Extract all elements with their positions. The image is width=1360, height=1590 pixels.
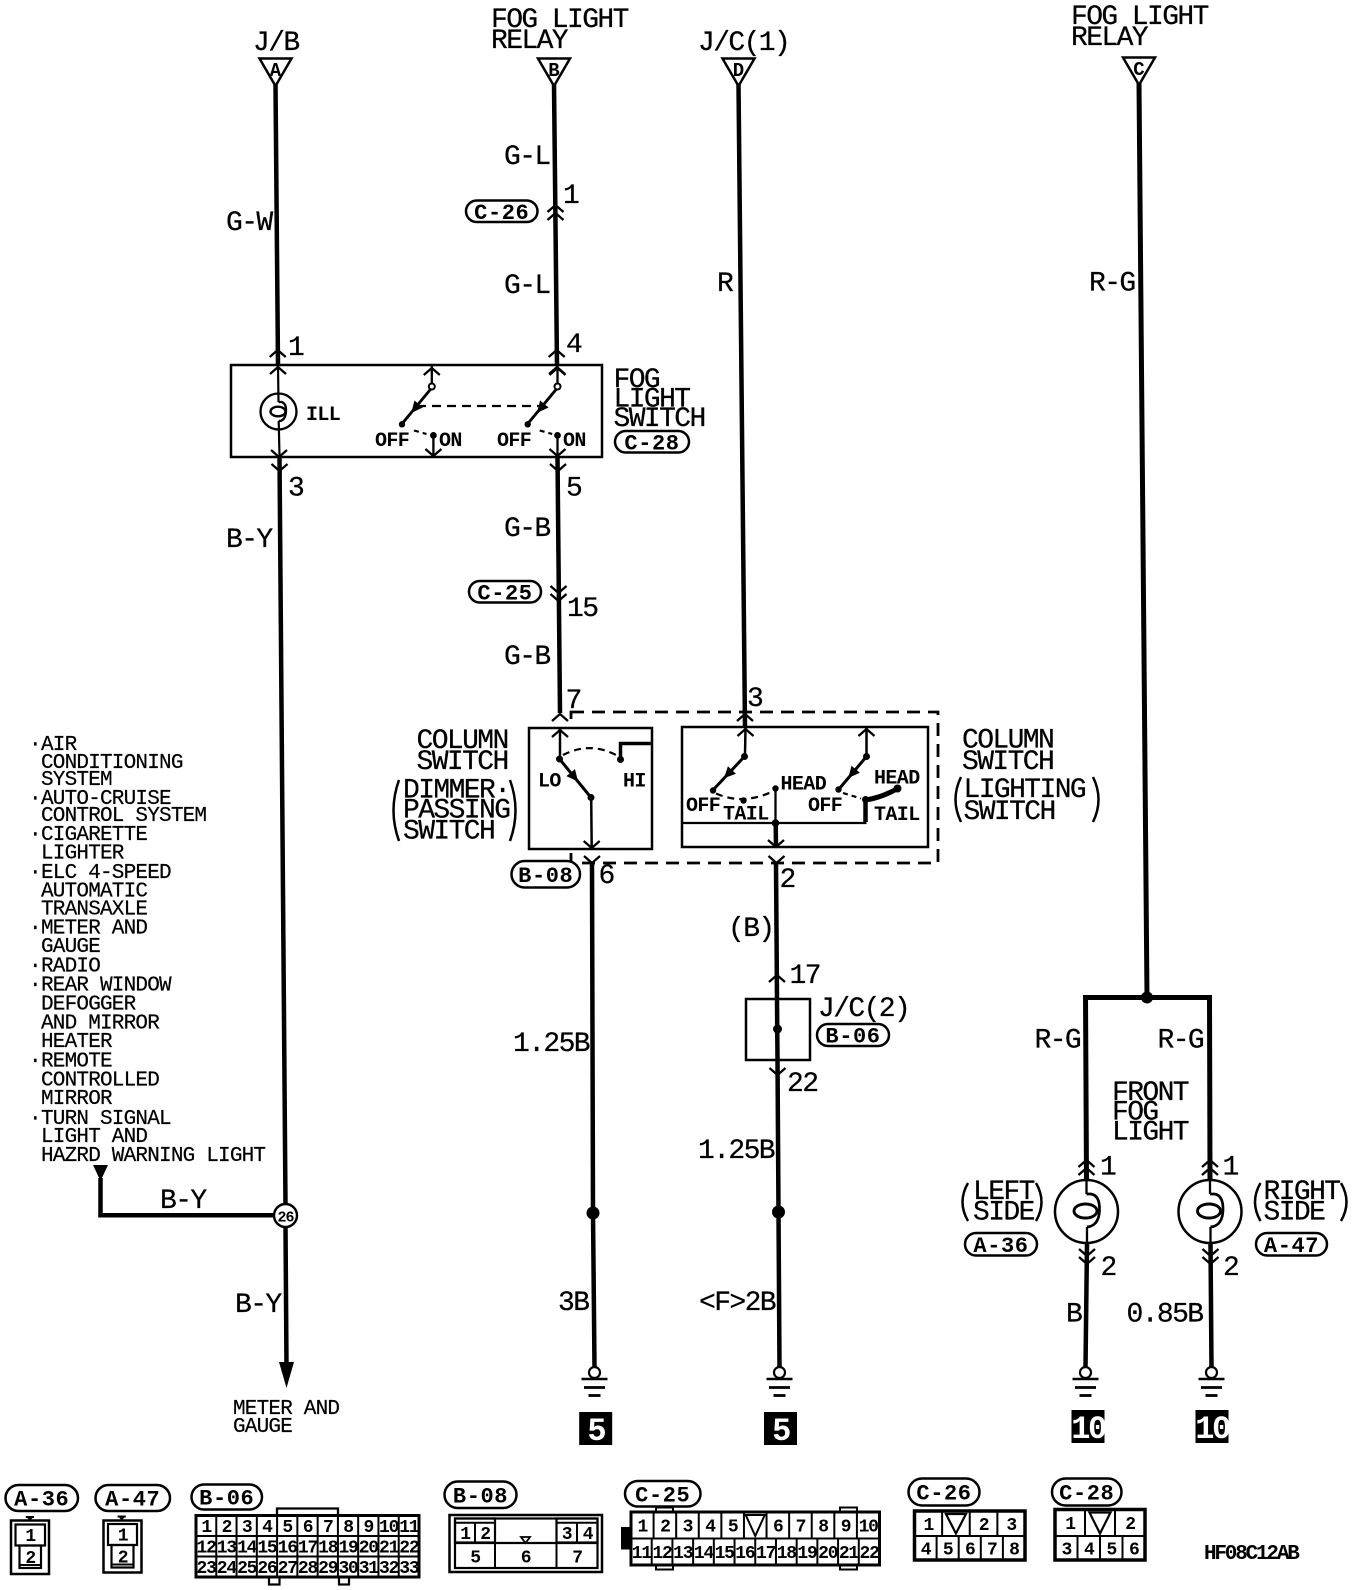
svg-text:·: ·	[29, 788, 41, 811]
svg-text:20: 20	[359, 1538, 379, 1558]
svg-text:5: 5	[470, 1549, 480, 1569]
ground for left fog light	[1073, 1367, 1099, 1396]
pin 6 label	[599, 861, 614, 892]
svg-text:G-L: G-L	[504, 142, 550, 173]
left fog light pin 2	[1079, 1249, 1116, 1284]
splice dot on wire 6	[587, 1207, 600, 1220]
connector C-25 pin view	[621, 1481, 880, 1570]
svg-text:29: 29	[318, 1559, 338, 1579]
left fog light ground wire B	[1086, 1244, 1088, 1368]
lighting switch right pivot entry	[859, 728, 875, 760]
svg-text:18: 18	[777, 1544, 797, 1564]
svg-text:B-Y: B-Y	[160, 1186, 207, 1217]
left fog light pin 1	[1079, 1153, 1117, 1184]
svg-text:2: 2	[979, 1516, 989, 1536]
svg-text:6: 6	[773, 1518, 783, 1538]
svg-text:14: 14	[694, 1544, 715, 1564]
svg-text:5: 5	[943, 1540, 953, 1560]
svg-text:SIDE: SIDE	[973, 1198, 1035, 1229]
svg-text:B-08: B-08	[518, 864, 573, 889]
ground for right fog light	[1199, 1367, 1225, 1396]
pin 1 label at C-26	[563, 181, 579, 212]
node FOG LIGHT RELAY label (B)	[491, 5, 629, 57]
svg-text:13: 13	[217, 1538, 237, 1558]
svg-text:2: 2	[1101, 1253, 1116, 1284]
FOG LIGHT SWITCH label	[614, 365, 705, 435]
svg-text:3: 3	[288, 474, 304, 505]
svg-text:1: 1	[563, 181, 579, 212]
svg-text:5: 5	[772, 1413, 790, 1450]
wire R from J/C(1) to lighting switch pin 3	[739, 84, 746, 728]
svg-text:HI: HI	[623, 771, 646, 794]
svg-text:2: 2	[660, 1518, 670, 1538]
COLUMN SWITCH LIGHTING label	[956, 726, 1099, 829]
wire label F 2B	[699, 1288, 776, 1319]
connector triangle B (fog light relay)	[538, 59, 570, 87]
svg-text:6: 6	[599, 861, 614, 892]
connector B-06 pin view	[192, 1485, 420, 1585]
connector A-47 label	[1256, 1233, 1327, 1259]
wire label 1.25B right	[698, 1136, 775, 1167]
svg-text:19: 19	[338, 1538, 358, 1558]
connector A-36 pin view	[6, 1485, 79, 1574]
svg-text:10: 10	[379, 1518, 399, 1538]
wire label R-G left	[1035, 1026, 1081, 1057]
svg-text:4: 4	[921, 1540, 932, 1560]
right fog light pin 2	[1203, 1249, 1239, 1284]
svg-text:1: 1	[288, 333, 304, 364]
connector C-26 pin view	[909, 1479, 1026, 1561]
wire B-Y from switch pin 3 to junction 26	[280, 457, 286, 1205]
branch arrow from systems list	[93, 1165, 108, 1213]
pin 5 of fog light switch	[550, 464, 582, 505]
TAIL contact left mech	[723, 797, 769, 826]
J/C(2) label	[818, 994, 909, 1025]
svg-text:17: 17	[756, 1544, 776, 1564]
connector triangle D (J/C(1))	[723, 59, 755, 87]
svg-text:24: 24	[217, 1559, 238, 1579]
svg-text:·: ·	[29, 824, 41, 847]
svg-text:6: 6	[303, 1518, 313, 1538]
svg-text:15: 15	[715, 1544, 735, 1564]
OFF label left mech	[686, 795, 720, 818]
svg-text:A-47: A-47	[1264, 1234, 1319, 1259]
connector triangle A (J/B)	[260, 59, 292, 87]
METER AND GAUGE destination label	[233, 1398, 339, 1439]
svg-text:1: 1	[25, 1527, 36, 1547]
svg-text:·: ·	[29, 975, 41, 998]
svg-text:31: 31	[359, 1559, 380, 1579]
svg-text:1: 1	[1100, 1153, 1116, 1184]
wire label (B)	[728, 914, 774, 945]
svg-text:8: 8	[343, 1518, 353, 1538]
wire label B-Y at branch	[160, 1186, 207, 1217]
svg-text:17: 17	[790, 961, 820, 992]
arrow to METER AND GAUGE	[279, 1362, 294, 1388]
pin 3 of fog light switch	[271, 450, 304, 505]
fog switch contact 2 (right, relay drive side)	[497, 366, 586, 456]
OFF label right mech	[808, 795, 842, 818]
svg-text:1: 1	[201, 1518, 212, 1538]
ground id 10 left	[1071, 1410, 1106, 1448]
junction 26 on B-Y wire	[274, 1204, 297, 1227]
svg-text:2: 2	[780, 865, 795, 896]
svg-text:16: 16	[735, 1544, 755, 1564]
wire 1.25B from dimmer pin 6 to ground	[592, 863, 595, 1367]
pin 3 label at lighting switch	[747, 684, 763, 715]
lighting switch internal bus	[683, 819, 867, 827]
svg-text:8: 8	[1009, 1540, 1019, 1560]
svg-text:4: 4	[566, 330, 582, 361]
wire 1.25B from J/C(2) to ground	[778, 1060, 780, 1367]
svg-text:B-Y: B-Y	[226, 525, 273, 556]
fog light switch box	[231, 365, 602, 457]
wire G-B from switch pin 5 to dimmer switch pin 7	[558, 457, 561, 713]
dimmer switch HI contact	[617, 744, 651, 794]
svg-text:·: ·	[29, 918, 41, 941]
svg-text:9: 9	[841, 1518, 851, 1538]
connector A-36 label	[965, 1233, 1037, 1259]
svg-text:HF08C12AB: HF08C12AB	[1204, 1543, 1300, 1566]
svg-text:SWITCH: SWITCH	[962, 747, 1053, 778]
svg-text:21: 21	[379, 1538, 400, 1558]
svg-text:2: 2	[1125, 1515, 1135, 1535]
svg-text:SIDE: SIDE	[1264, 1198, 1326, 1229]
lighting switch left lever	[710, 757, 745, 794]
svg-text:R-G: R-G	[1089, 269, 1135, 300]
svg-text:2: 2	[1223, 1253, 1238, 1284]
svg-text:16: 16	[278, 1538, 298, 1558]
svg-text:J/C(2): J/C(2)	[818, 994, 909, 1025]
right fog light pin 1	[1202, 1153, 1239, 1184]
wire label R-G right	[1158, 1026, 1204, 1057]
connector C-25 inline marker	[469, 581, 541, 606]
wire G-W from J/B A to fog light switch pin 1	[276, 84, 279, 366]
svg-text:32: 32	[379, 1559, 399, 1579]
svg-text:5: 5	[282, 1518, 292, 1538]
dimmer passing switch box	[529, 728, 652, 849]
TAIL contact right mech (selected)	[862, 785, 902, 823]
svg-text:LIGHT: LIGHT	[1112, 1118, 1189, 1149]
wire label B	[1066, 1300, 1082, 1331]
svg-text:10: 10	[1071, 1411, 1106, 1448]
svg-text:G-B: G-B	[504, 642, 550, 673]
lighting switch right lever	[835, 757, 866, 793]
svg-text:B-08: B-08	[453, 1484, 508, 1509]
pin 4 of fog light switch	[549, 330, 582, 374]
chevrons at C-26 crossing	[548, 205, 564, 220]
svg-text:R-G: R-G	[1158, 1026, 1204, 1057]
wire G-L from relay B to fog light switch pin 4	[554, 84, 557, 366]
chevron and pin 17 at J/C(2)	[769, 961, 820, 992]
svg-text:B-06: B-06	[825, 1025, 880, 1050]
svg-text:26: 26	[277, 1210, 294, 1227]
svg-text:5: 5	[1106, 1540, 1116, 1560]
right fog light ground wire 0.85B	[1211, 1244, 1212, 1368]
left systems list	[29, 734, 265, 1168]
svg-text:B-Y: B-Y	[235, 1290, 282, 1321]
svg-text:19: 19	[797, 1544, 817, 1564]
svg-text:1: 1	[1065, 1515, 1076, 1535]
svg-text:7: 7	[796, 1518, 806, 1538]
svg-text:4: 4	[1084, 1540, 1095, 1560]
svg-text:C-28: C-28	[1059, 1482, 1114, 1507]
svg-text:1.25B: 1.25B	[513, 1029, 590, 1060]
svg-text:4: 4	[262, 1518, 273, 1538]
dimmer switch lever	[560, 759, 595, 801]
svg-text:HEAD: HEAD	[874, 768, 920, 791]
gang dashed link between fog switch contacts	[417, 405, 540, 407]
svg-text:28: 28	[298, 1559, 318, 1579]
COLUMN SWITCH DIMMER PASSING label	[394, 726, 516, 848]
svg-text:7: 7	[987, 1540, 997, 1560]
pin 7 label at dimmer switch	[566, 686, 581, 717]
svg-text:27: 27	[278, 1559, 298, 1579]
wire R-G from relay C down to fog light branch	[1139, 83, 1147, 998]
pin 1 of fog light switch	[270, 333, 304, 374]
ground id 5 left	[579, 1412, 612, 1450]
svg-text:ON: ON	[439, 430, 462, 453]
svg-text:B: B	[548, 60, 559, 82]
connector B-08 inline marker	[512, 861, 581, 889]
svg-text:5: 5	[566, 474, 582, 505]
svg-text:3: 3	[1006, 1516, 1016, 1536]
svg-text:OFF: OFF	[375, 430, 409, 453]
svg-text:C-25: C-25	[477, 581, 532, 606]
svg-text:18: 18	[318, 1538, 338, 1558]
splice dot on wire 22	[772, 1206, 785, 1219]
svg-text:(B): (B)	[728, 914, 774, 945]
svg-text:1.25B: 1.25B	[698, 1136, 775, 1167]
left fog light feed wire R-G	[1086, 995, 1087, 1181]
wire label G-B lower	[504, 642, 550, 673]
svg-text:0.85B: 0.85B	[1127, 1300, 1204, 1331]
branch wire to junction 26	[98, 1213, 276, 1218]
svg-text:12: 12	[652, 1544, 672, 1564]
lighting switch wire to pin 2	[768, 823, 785, 863]
svg-text:6: 6	[1129, 1540, 1139, 1560]
right fog light feed wire R-G	[1207, 995, 1213, 1181]
svg-text:15: 15	[257, 1538, 277, 1558]
svg-text:26: 26	[257, 1559, 277, 1579]
svg-text:3: 3	[242, 1518, 252, 1538]
wire label G-L upper	[504, 142, 550, 173]
svg-text:RELAY: RELAY	[491, 26, 569, 57]
ILL illumination bulb in switch	[261, 366, 297, 456]
node FOG LIGHT RELAY label (C)	[1071, 2, 1209, 54]
svg-text:5: 5	[728, 1518, 738, 1538]
ground for lighting circuit	[767, 1367, 793, 1396]
svg-text:B: B	[1066, 1300, 1082, 1331]
svg-text:7: 7	[323, 1518, 333, 1538]
svg-text:G-L: G-L	[504, 271, 550, 302]
svg-text:C-25: C-25	[635, 1483, 690, 1508]
wire B-Y from junction 26 to meter and gauge	[286, 1227, 287, 1366]
svg-text:·: ·	[29, 1051, 41, 1074]
wire label R	[717, 269, 734, 300]
svg-text:6: 6	[521, 1549, 531, 1569]
svg-text:4: 4	[705, 1518, 716, 1538]
fog light feed branch tee	[1086, 992, 1210, 1004]
svg-text:HAZRD WARNING LIGHT: HAZRD WARNING LIGHT	[41, 1145, 265, 1168]
svg-text:10: 10	[1195, 1411, 1230, 1448]
dimmer switch LO contact	[538, 756, 563, 794]
svg-text:17: 17	[298, 1538, 318, 1558]
svg-text:11: 11	[632, 1544, 653, 1564]
svg-text:2: 2	[222, 1518, 232, 1538]
svg-text:OFF: OFF	[686, 795, 720, 818]
wire label 0.85B	[1127, 1300, 1204, 1331]
lighting switch left dashed arc	[716, 792, 773, 800]
HEAD contact left mech	[772, 774, 826, 824]
lighting switch pin 3 entry chevrons	[737, 714, 754, 755]
svg-text:·: ·	[29, 862, 41, 885]
svg-text:G-W: G-W	[226, 208, 273, 239]
svg-text:A-36: A-36	[973, 1234, 1028, 1259]
dimmer switch pin 7 entry chevrons	[552, 714, 568, 756]
dimmer switch dashed arc	[563, 748, 617, 755]
svg-text:LO: LO	[538, 771, 561, 794]
svg-text:J/B: J/B	[253, 28, 299, 59]
svg-text:20: 20	[818, 1544, 838, 1564]
pin 2 label	[780, 865, 795, 896]
chevrons at C-25 crossing	[551, 586, 567, 601]
connector A-47 pin view	[96, 1485, 171, 1573]
left front fog light bulb	[1055, 1180, 1118, 1244]
svg-text:7: 7	[572, 1549, 582, 1569]
svg-text:·: ·	[29, 1108, 41, 1131]
node J/B (junction block) label	[253, 28, 299, 59]
svg-text:21: 21	[839, 1544, 860, 1564]
svg-text:A: A	[270, 60, 282, 82]
svg-text:33: 33	[399, 1559, 419, 1579]
pin 15 label at C-25	[567, 594, 598, 625]
svg-text:J/C(1): J/C(1)	[698, 28, 789, 59]
svg-text:C-26: C-26	[916, 1482, 971, 1507]
ground for dimmer circuit	[582, 1367, 608, 1396]
svg-text:R: R	[717, 269, 734, 300]
node J/C(1) label	[698, 28, 789, 59]
fog switch contact 1 (left, illumination relay side)	[375, 366, 462, 456]
svg-text:ILL: ILL	[306, 404, 340, 427]
svg-text:3: 3	[683, 1518, 693, 1538]
svg-text:TAIL: TAIL	[874, 804, 920, 827]
connector C-28 label under switch name	[615, 431, 689, 456]
wire label B-Y upper	[226, 525, 273, 556]
connector triangle C (fog light relay)	[1123, 58, 1155, 86]
svg-text:10: 10	[859, 1518, 879, 1538]
wire label 3B	[558, 1288, 589, 1319]
connector B-08 pin view	[445, 1482, 603, 1573]
column switch dashed outline	[571, 712, 938, 863]
connector B-06 inline marker	[817, 1024, 889, 1050]
svg-text:D: D	[733, 60, 744, 82]
wire from lighting pin 2 to J/C(2)	[776, 863, 777, 999]
svg-text:15: 15	[567, 594, 598, 625]
svg-text:1: 1	[924, 1516, 935, 1536]
svg-text:GAUGE: GAUGE	[233, 1416, 292, 1439]
svg-text:B-06: B-06	[199, 1487, 254, 1512]
svg-text:OFF: OFF	[497, 430, 531, 453]
svg-text:5: 5	[587, 1413, 605, 1450]
ground id 10 right	[1195, 1410, 1230, 1448]
svg-text:13: 13	[673, 1544, 693, 1564]
wire label G-W	[226, 208, 273, 239]
FRONT FOG LIGHT label	[1112, 1078, 1189, 1149]
ILL label	[306, 404, 340, 427]
dashes OFF to TAIL right mech	[843, 793, 861, 799]
svg-text:1: 1	[118, 1527, 129, 1547]
svg-text:1: 1	[637, 1518, 648, 1538]
svg-text:<F>2B: <F>2B	[699, 1288, 776, 1319]
wire label B-Y lower	[235, 1290, 282, 1321]
svg-text:14: 14	[237, 1538, 258, 1558]
svg-text:22: 22	[787, 1069, 817, 1100]
svg-text:1: 1	[1223, 1153, 1239, 1184]
wire label R-G upper	[1089, 269, 1135, 300]
svg-text:22: 22	[399, 1538, 419, 1558]
svg-text:6: 6	[965, 1540, 975, 1560]
RIGHT SIDE label	[1255, 1177, 1347, 1229]
svg-text:23: 23	[197, 1559, 217, 1579]
svg-text:11: 11	[399, 1518, 420, 1538]
LEFT SIDE label	[963, 1177, 1042, 1229]
svg-text:C-26: C-26	[474, 201, 529, 226]
wire label G-B upper	[504, 514, 550, 545]
svg-text:25: 25	[237, 1559, 257, 1579]
svg-text:3B: 3B	[558, 1288, 589, 1319]
connector C-28 pin view	[1052, 1479, 1145, 1561]
svg-text:G-B: G-B	[504, 514, 550, 545]
svg-text:·: ·	[29, 734, 41, 757]
svg-text:R-G: R-G	[1035, 1026, 1081, 1057]
svg-text:RELAY: RELAY	[1071, 23, 1149, 54]
svg-text:C: C	[1133, 59, 1144, 81]
svg-text:OFF: OFF	[808, 795, 842, 818]
svg-text:8: 8	[818, 1518, 828, 1538]
lighting switch box	[682, 727, 928, 847]
svg-text:SWITCH: SWITCH	[964, 797, 1055, 828]
svg-text:C-28: C-28	[624, 431, 679, 456]
svg-text:ON: ON	[563, 430, 586, 453]
ground id 5 right	[764, 1412, 797, 1450]
svg-text:SWITCH: SWITCH	[417, 747, 508, 778]
svg-text:12: 12	[197, 1538, 217, 1558]
diagram id HF08C12AB	[1204, 1543, 1300, 1566]
svg-text:3: 3	[747, 684, 763, 715]
svg-text:A-36: A-36	[14, 1488, 69, 1513]
connector C-26 inline marker	[466, 201, 538, 226]
svg-text:3: 3	[1061, 1540, 1071, 1560]
svg-text:SWITCH: SWITCH	[403, 817, 494, 848]
chevron and pin 22 below J/C(2)	[770, 1068, 818, 1100]
lighting switch left pivot	[741, 753, 748, 760]
wire label 1.25B left	[513, 1029, 590, 1060]
wire label G-L lower	[504, 271, 550, 302]
svg-text:A-47: A-47	[105, 1488, 160, 1513]
J/C(2) junction box	[746, 999, 810, 1060]
dimmer switch wire to pin 6	[584, 798, 600, 864]
svg-text:9: 9	[364, 1518, 374, 1538]
HEAD label right mech	[874, 768, 920, 791]
svg-text:30: 30	[338, 1559, 358, 1579]
svg-text:HEAD: HEAD	[781, 774, 827, 797]
svg-text:22: 22	[860, 1544, 880, 1564]
right front fog light bulb	[1179, 1180, 1242, 1244]
TAIL label right mech	[874, 804, 920, 827]
